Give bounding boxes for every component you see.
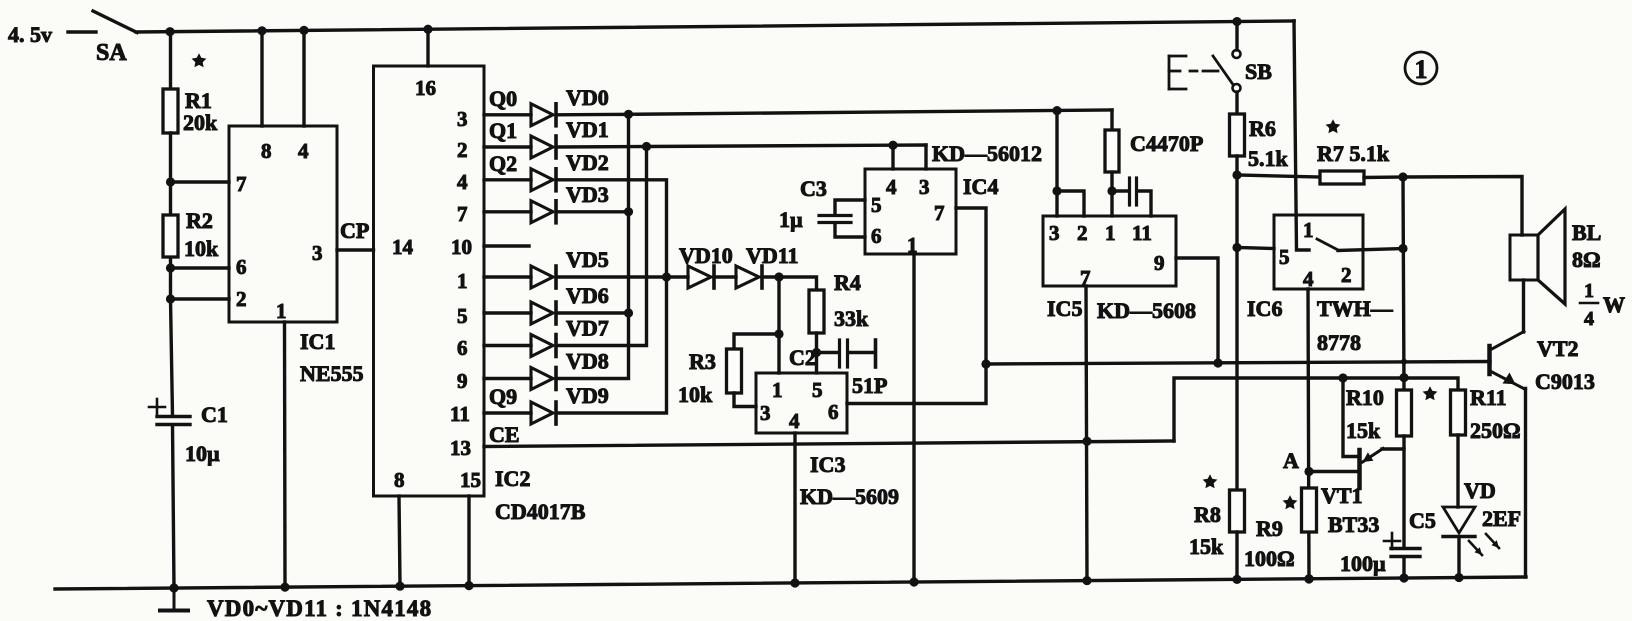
svg-text:2EF: 2EF [1482, 506, 1521, 531]
svg-text:3: 3 [457, 107, 468, 131]
svg-text:15: 15 [460, 468, 481, 492]
svg-text:4: 4 [789, 409, 800, 433]
svg-text:8: 8 [394, 468, 405, 492]
svg-text:100Ω: 100Ω [1244, 546, 1295, 571]
svg-text:9: 9 [1154, 251, 1165, 275]
svg-text:1: 1 [1584, 280, 1594, 302]
svg-text:Q1: Q1 [489, 118, 517, 143]
svg-text:BL: BL [1572, 220, 1601, 245]
svg-text:5: 5 [457, 304, 468, 328]
svg-text:VD6: VD6 [566, 283, 609, 308]
svg-text:C9013: C9013 [1535, 369, 1595, 394]
svg-text:C1: C1 [201, 402, 228, 427]
svg-text:BT33: BT33 [1328, 512, 1379, 537]
svg-text:IC4: IC4 [963, 174, 998, 199]
svg-text:15k: 15k [1189, 534, 1224, 559]
svg-text:5: 5 [812, 378, 823, 402]
svg-text:VD7: VD7 [566, 316, 609, 341]
svg-text:4. 5v: 4. 5v [8, 22, 52, 47]
svg-text:IC3: IC3 [810, 452, 845, 477]
svg-text:CE: CE [489, 422, 520, 447]
svg-text:13: 13 [450, 436, 471, 460]
svg-text:TWH—: TWH— [1317, 296, 1394, 321]
svg-text:VD0: VD0 [566, 85, 609, 110]
svg-text:1: 1 [1105, 221, 1116, 245]
svg-text:IC5: IC5 [1047, 296, 1082, 321]
svg-text:KD—5608: KD—5608 [1097, 298, 1196, 323]
svg-text:3: 3 [312, 241, 323, 265]
svg-text:R8: R8 [1194, 502, 1221, 527]
svg-text:6: 6 [457, 336, 468, 360]
svg-text:1: 1 [772, 378, 783, 402]
svg-text:KD—5609: KD—5609 [800, 484, 899, 509]
svg-text:R6: R6 [1249, 116, 1276, 141]
svg-text:4: 4 [457, 170, 468, 194]
svg-text:IC6: IC6 [1247, 296, 1282, 321]
svg-text:10µ: 10µ [185, 441, 220, 466]
svg-text:R10: R10 [1346, 385, 1384, 410]
svg-text:7: 7 [236, 172, 247, 196]
svg-text:Q9: Q9 [489, 384, 517, 409]
svg-text:2: 2 [236, 287, 247, 311]
svg-text:33k: 33k [834, 306, 869, 331]
svg-text:1: 1 [457, 269, 468, 293]
svg-text:6: 6 [828, 400, 839, 424]
svg-text:VT2: VT2 [1537, 336, 1579, 361]
svg-text:SA: SA [96, 40, 127, 66]
svg-text:3: 3 [919, 175, 930, 199]
svg-text:8Ω: 8Ω [1572, 247, 1601, 272]
svg-text:C2: C2 [789, 345, 816, 370]
svg-text:4: 4 [1584, 308, 1594, 330]
svg-text:NE555: NE555 [300, 361, 364, 386]
svg-text:2: 2 [1077, 221, 1088, 245]
svg-text:7: 7 [934, 201, 945, 225]
svg-text:5.1k: 5.1k [1248, 146, 1289, 171]
svg-text:2: 2 [1341, 263, 1352, 287]
svg-text:4: 4 [298, 139, 309, 163]
svg-text:3: 3 [1049, 221, 1060, 245]
svg-text:VT1: VT1 [1321, 483, 1363, 508]
svg-text:R9: R9 [1256, 516, 1283, 541]
svg-text:8778: 8778 [1317, 330, 1361, 355]
svg-text:1: 1 [1415, 55, 1428, 84]
svg-text:1: 1 [1303, 218, 1314, 242]
svg-text:A: A [1283, 448, 1299, 473]
svg-text:IC2: IC2 [495, 466, 530, 491]
svg-text:4: 4 [886, 175, 897, 199]
svg-text:3: 3 [760, 401, 771, 425]
svg-text:250Ω: 250Ω [1470, 418, 1521, 443]
svg-text:16: 16 [415, 76, 436, 100]
svg-text:5: 5 [1279, 245, 1290, 269]
svg-text:1: 1 [276, 299, 287, 323]
svg-text:VD2: VD2 [566, 150, 609, 175]
svg-text:10k: 10k [184, 236, 219, 261]
svg-text:VD0~VD11 : 1N4148: VD0~VD11 : 1N4148 [207, 596, 432, 621]
svg-text:R2: R2 [186, 208, 213, 233]
svg-text:9: 9 [457, 369, 468, 393]
svg-text:VD1: VD1 [566, 117, 609, 142]
svg-text:R4: R4 [834, 270, 861, 295]
svg-text:100µ: 100µ [1340, 551, 1386, 576]
svg-text:VD3: VD3 [566, 182, 609, 207]
svg-text:Q0: Q0 [489, 86, 517, 111]
svg-text:8: 8 [261, 139, 272, 163]
svg-text:VD9: VD9 [566, 383, 609, 408]
svg-text:IC1: IC1 [300, 329, 335, 354]
svg-text:VD: VD [1464, 478, 1496, 503]
svg-text:7: 7 [457, 202, 468, 226]
svg-text:VD11: VD11 [746, 243, 799, 268]
svg-text:51P: 51P [852, 373, 887, 398]
svg-text:CD4017B: CD4017B [495, 499, 586, 524]
svg-text:VD5: VD5 [566, 247, 609, 272]
svg-text:11: 11 [1132, 221, 1152, 245]
svg-text:C4470P: C4470P [1130, 131, 1203, 156]
svg-text:6: 6 [236, 255, 247, 279]
svg-text:6: 6 [871, 224, 882, 248]
svg-text:SB: SB [1245, 59, 1272, 84]
svg-text:10k: 10k [678, 382, 713, 407]
svg-text:CP: CP [340, 218, 369, 243]
svg-text:KD—56012: KD—56012 [932, 141, 1042, 166]
svg-text:14: 14 [392, 235, 414, 259]
svg-text:C5: C5 [1409, 508, 1436, 533]
svg-text:2: 2 [457, 138, 468, 162]
svg-text:W: W [1603, 292, 1625, 317]
svg-text:10: 10 [451, 235, 472, 259]
svg-text:R3: R3 [689, 349, 716, 374]
svg-text:VD10: VD10 [679, 243, 733, 268]
svg-text:11: 11 [450, 402, 470, 426]
svg-text:R7 5.1k: R7 5.1k [1317, 141, 1390, 166]
svg-text:20k: 20k [183, 110, 218, 135]
svg-text:1µ: 1µ [779, 207, 803, 232]
svg-text:C3: C3 [800, 176, 827, 201]
svg-text:5: 5 [871, 193, 882, 217]
svg-text:R11: R11 [1470, 385, 1507, 410]
svg-text:Q2: Q2 [489, 151, 517, 176]
svg-text:VD8: VD8 [566, 349, 609, 374]
svg-text:15k: 15k [1346, 418, 1381, 443]
svg-text:1: 1 [907, 233, 918, 257]
